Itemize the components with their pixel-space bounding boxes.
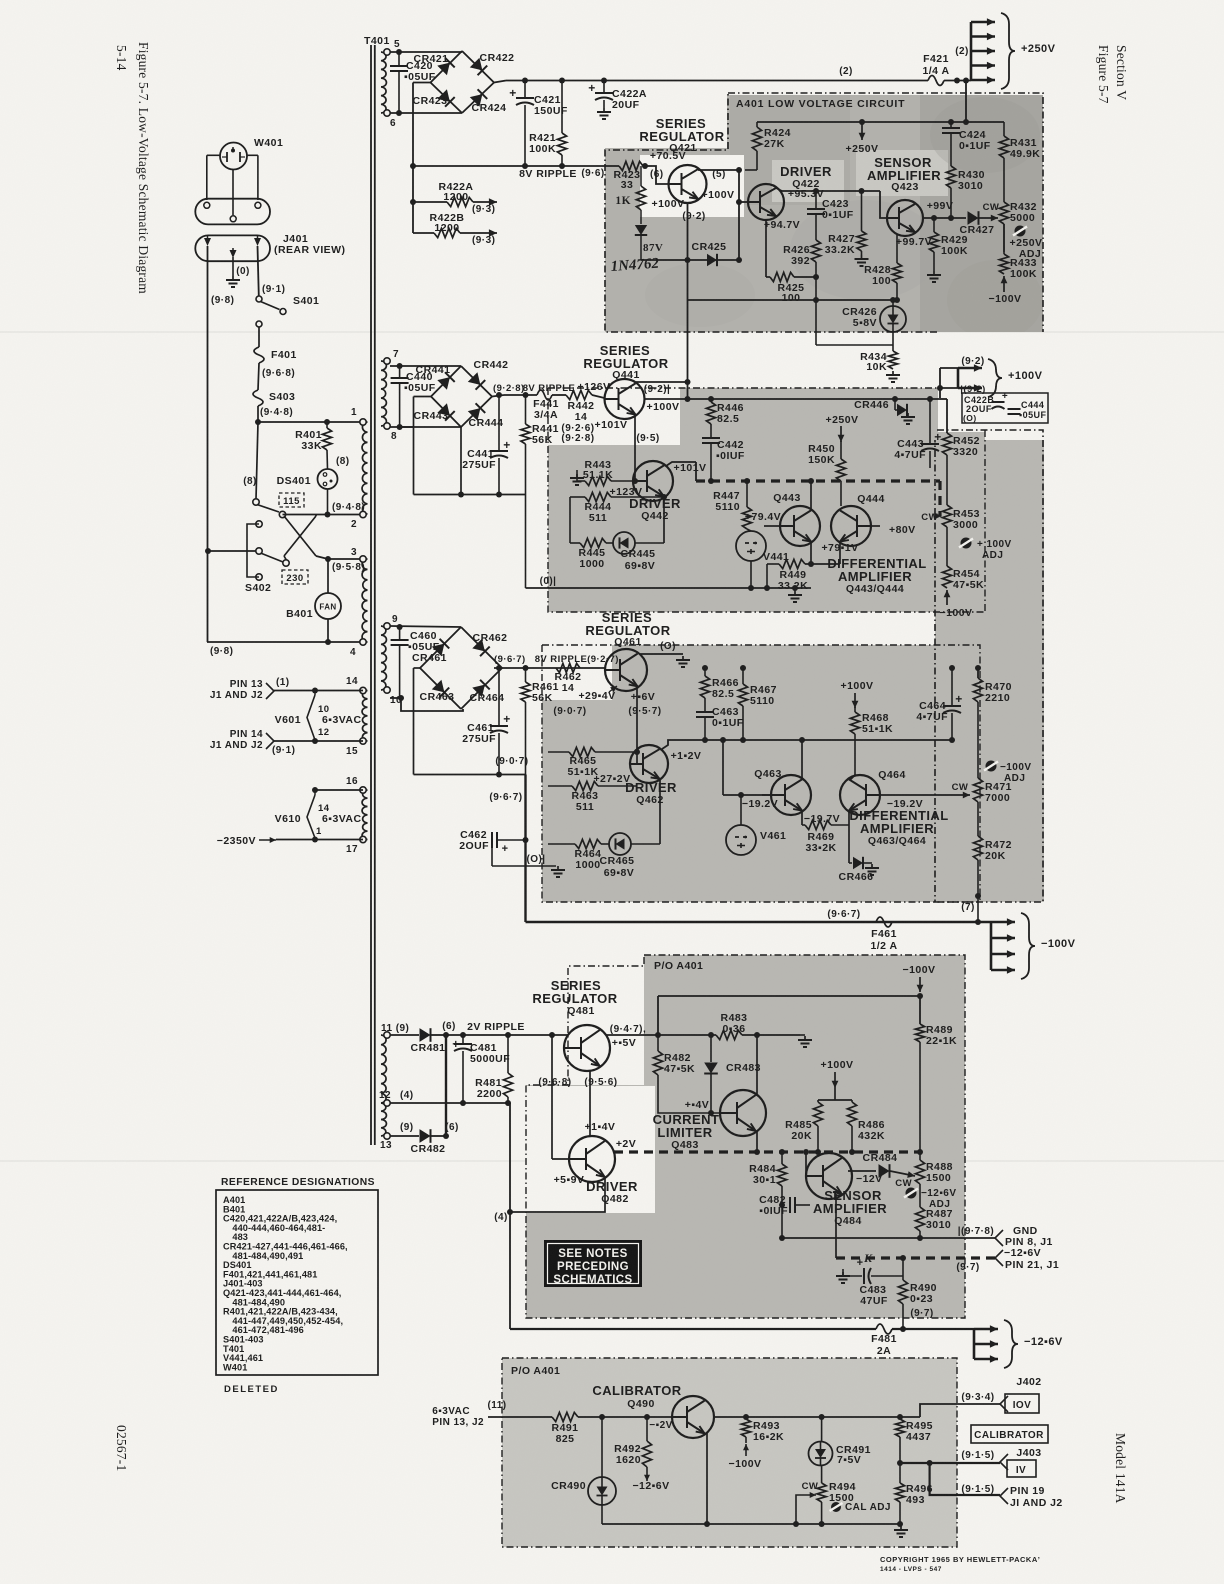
diode CR484 xyxy=(848,1170,876,1172)
resistor R488 1500 potentiometer xyxy=(917,1149,923,1155)
wire to R452 chain xyxy=(940,398,947,400)
+250V output arrows xyxy=(954,78,960,84)
resistor R469 33.2K xyxy=(805,820,831,829)
wire Q462 emitter xyxy=(659,778,661,844)
diode CR443 xyxy=(437,403,454,420)
output J402 10V xyxy=(920,1404,1000,1417)
wire zener row xyxy=(815,300,817,345)
wire S401 to F401 xyxy=(258,327,260,347)
resistor R431 49.9K xyxy=(1003,122,1005,136)
resistor R433 100K xyxy=(1003,224,1005,254)
ground after R483 xyxy=(800,1034,805,1036)
diode CR464 xyxy=(472,680,489,697)
fuse F461 1/2A xyxy=(876,917,892,927)
wire +250V internal bus xyxy=(757,121,1004,123)
resistor R443 51.1K xyxy=(576,474,578,478)
transistor Q441 series regulator xyxy=(605,379,645,419)
wire +101V heavy dashed xyxy=(696,479,940,482)
resistor R444 511 xyxy=(585,492,611,501)
wire -100V feed rail xyxy=(658,995,920,997)
zener CR445 69.8V xyxy=(613,532,635,554)
bottom -12.6V bus xyxy=(510,1328,876,1330)
T401 primary winding 3-4 xyxy=(362,559,367,642)
wire F401 to S403 xyxy=(258,363,259,390)
wire Q481 emitter to Q482 collector xyxy=(589,1071,591,1136)
-100V feed arrow up xyxy=(946,590,948,605)
node at primary tap xyxy=(255,419,261,425)
wiper arrow CW to R488 xyxy=(890,1171,915,1176)
resistor R430 3010 xyxy=(946,166,955,188)
wire Q443 collector xyxy=(810,481,812,511)
wire Q441 collector xyxy=(636,381,688,383)
wires diff amp emitters xyxy=(810,541,812,564)
wire base feed diff amp xyxy=(722,740,724,795)
T401 secondary winding 11-12-13 xyxy=(381,1035,386,1103)
diode CR421 xyxy=(437,58,454,75)
wire bus to Q421 base xyxy=(652,166,669,184)
wire GND pin 8 J1 xyxy=(782,1237,995,1239)
adjustment -100V ADJ xyxy=(986,761,997,772)
receptacle face W401 xyxy=(195,199,270,225)
+100V output wires xyxy=(939,368,941,398)
transistor Q484 sensor amplifier xyxy=(806,1153,852,1199)
resistor R428 100 xyxy=(896,234,898,263)
wires diff amp emitters xyxy=(801,810,803,825)
resistor R466 82.5 xyxy=(704,668,706,676)
wire DS401 to line-set wire xyxy=(327,489,329,514)
adjustment -12.6V ADJ xyxy=(906,1188,917,1199)
fuse F481 2A xyxy=(876,1324,892,1334)
wires plug to face xyxy=(207,154,220,156)
capacitor C441 275UF xyxy=(498,395,500,451)
ground on zero rail xyxy=(794,588,796,591)
switch S402 xyxy=(256,521,262,527)
resistor R434 10K xyxy=(892,345,894,351)
wire zero-volt rail xyxy=(526,587,812,589)
lamp DS401 xyxy=(326,450,329,469)
wire terminal 3 line xyxy=(328,558,364,560)
wire Q442 collector +101V xyxy=(666,462,696,466)
fuse F441 3/4A xyxy=(537,390,552,400)
resistor R493 16.2K xyxy=(743,1414,749,1420)
diode CR427 xyxy=(968,211,979,225)
wire Q421 collector to node 5 xyxy=(698,169,739,171)
transistor Q490 calibrator xyxy=(672,1396,714,1438)
main +126V bus xyxy=(492,395,504,397)
resistor R425 100 xyxy=(766,276,770,278)
wire -12.6V pin 21 heavy dashed xyxy=(836,1256,995,1259)
T401 secondary winding 7-8 xyxy=(381,361,386,426)
white cutout around Q441 xyxy=(548,388,680,445)
resistor R484 30.1 xyxy=(781,1152,783,1164)
V610 heater designation xyxy=(315,789,363,791)
light patch behind SENSOR AMPLIFIER title xyxy=(856,150,948,196)
right margin Section V xyxy=(1114,45,1129,100)
resistor R483 0.36 xyxy=(716,1030,742,1039)
transistor Q422 driver xyxy=(748,184,784,220)
transistor Q461 series regulator xyxy=(605,649,647,691)
handwritten 1K resistor xyxy=(640,166,642,186)
diode CR446 xyxy=(892,396,898,402)
resistor R491 825 xyxy=(552,1412,578,1421)
resistor R447 5110 xyxy=(746,481,748,507)
calibrator boxed label xyxy=(971,1425,1048,1443)
wiper arrow CW xyxy=(940,515,942,517)
Q461 box dashed border xyxy=(542,645,980,902)
resistor R429 100K xyxy=(933,218,935,232)
zener CR426 5.8V xyxy=(892,300,894,306)
T401 secondary winding 5-6 xyxy=(381,52,386,113)
transistor Q483 current limiter xyxy=(720,1090,766,1136)
zener CR465 69.8V xyxy=(609,833,631,855)
diode CR462 xyxy=(472,639,489,656)
adjustment +100V ADJ xyxy=(961,538,972,549)
wire -12.6V heavy dashed sense line xyxy=(614,1150,920,1153)
capacitor C421 150UF xyxy=(522,78,528,84)
capacitor C463 0.1UF xyxy=(696,711,714,713)
capacitor C483 47UF xyxy=(842,1272,844,1276)
resistor R481 2200 xyxy=(505,1032,511,1038)
resistor R489 22.1K xyxy=(919,996,921,1024)
wire Q462 collector xyxy=(662,740,723,749)
wire bridge bottom leg xyxy=(460,427,462,495)
resistor R467 5110 xyxy=(742,668,744,684)
ground at J401 center pin xyxy=(232,257,234,276)
wire Q422 emitter xyxy=(765,220,767,277)
shaded region Q461 -100V section xyxy=(542,645,980,902)
wire feedback row xyxy=(688,299,898,301)
transistor Q443 xyxy=(780,506,820,546)
connector J401 rear view xyxy=(195,235,270,261)
see notes preceding schematics box xyxy=(544,1240,642,1287)
capacitor C440 .05UF xyxy=(390,365,461,367)
transistor Q444 xyxy=(831,506,871,546)
capacitor C464 4.7UF xyxy=(951,668,953,706)
bridge rectifier CR421-CR424 xyxy=(431,51,463,113)
white cutout top-left of A401 box xyxy=(605,95,727,148)
transistor Q442 driver xyxy=(633,461,673,501)
T401 winding 16-17 xyxy=(362,790,367,840)
transistor Q481 series regulator xyxy=(564,1025,610,1071)
transistor Q423 sensor amplifier xyxy=(887,200,923,236)
fuse F421 1/4A xyxy=(928,76,944,86)
diode CR442 xyxy=(468,372,485,389)
bottom rail calibrator xyxy=(602,1523,900,1525)
resistor R464 1000 xyxy=(575,839,601,848)
breaker S403 xyxy=(253,390,263,406)
transistor Q462 driver xyxy=(630,745,668,783)
bridge rectifier CR461-CR464 xyxy=(420,627,461,709)
T401 primary winding 1-2 xyxy=(362,422,367,514)
resistor R462 14 xyxy=(556,663,580,672)
resistor R496 493 xyxy=(897,1460,903,1466)
left margin page number 5-14 xyxy=(114,45,129,71)
diode CR441 xyxy=(437,372,454,389)
resistor R424 27K xyxy=(756,122,758,127)
-100V output arrows xyxy=(990,922,993,970)
voltage selector 115 marker xyxy=(279,493,304,507)
left margin figure caption xyxy=(136,42,151,294)
fan motor B401 xyxy=(327,559,329,593)
wire +100V rail from section1 xyxy=(687,300,689,399)
resistor R445 1000 xyxy=(570,542,580,544)
wires to R485 R486 xyxy=(834,1088,836,1100)
resistor R470 2210 xyxy=(977,668,979,678)
wire dc+ bus to F421 xyxy=(494,81,506,83)
-12.6V output arrows xyxy=(973,1329,976,1359)
resistor R495 4437 xyxy=(897,1414,903,1420)
handwritten zener 87V xyxy=(640,210,642,224)
white cutout around Q482 xyxy=(526,1086,655,1213)
wire Q484 emitter xyxy=(835,1194,837,1258)
white cutout around Q421 xyxy=(640,155,744,217)
Q441 box dashed border xyxy=(548,388,985,612)
wire bridge left leg xyxy=(414,396,432,398)
potentiometer R453 3000 xyxy=(942,505,951,527)
wire Q422 collector rail xyxy=(776,188,790,191)
transistor Q482 driver xyxy=(569,1136,615,1182)
main 8V ripple bus -100V section xyxy=(494,667,606,669)
output J403 1V xyxy=(900,1462,1000,1464)
wire J401 right pin to S401 xyxy=(258,246,259,296)
bottom -100V bus xyxy=(524,775,526,923)
wire (4) rail xyxy=(509,1103,511,1329)
resistor R487 3010 xyxy=(919,1184,921,1207)
wire 2V ripple bus xyxy=(446,1034,568,1036)
resistor R441 56K xyxy=(525,395,527,424)
diode CR466 xyxy=(849,862,852,864)
wire Q464 base to wiper CW xyxy=(880,794,950,796)
fuse F401 xyxy=(254,347,264,363)
transistor Q463 xyxy=(771,775,811,815)
capacitor C443 4.7UF xyxy=(927,396,933,402)
T401 winding 14-15 xyxy=(362,691,367,742)
resistor R490 0.23 xyxy=(902,1258,904,1280)
plug W401 xyxy=(220,143,247,170)
resistor R472 20K xyxy=(977,802,979,836)
-100V feed arrow xyxy=(1003,276,1005,292)
capacitor C422A 20UF xyxy=(601,78,607,84)
wire Q490 collector bus xyxy=(714,1416,920,1418)
resistor R463 511 xyxy=(572,781,598,790)
+250V arrow label xyxy=(861,122,863,140)
wire (9.6.8) base rail xyxy=(551,1035,553,1159)
transistor Q421 series regulator xyxy=(669,165,707,203)
resistor R465 51.1K xyxy=(569,747,595,756)
wire Q482 emitter to (4) rail xyxy=(510,1177,605,1212)
resistor R426 392 xyxy=(811,240,820,262)
diode CR490 xyxy=(599,1414,605,1420)
resistor R468 51.1K xyxy=(854,707,856,712)
resistor R482 47.5K xyxy=(657,1035,659,1051)
wire V441 cathode xyxy=(750,561,752,588)
diode CR483 xyxy=(708,1032,714,1038)
adjustment +250V ADJ xyxy=(1015,226,1026,237)
diode CR425 xyxy=(641,259,688,261)
wire 8V ripple bus xyxy=(413,82,431,84)
wire +100V bus xyxy=(645,398,941,400)
bottom line-set wire xyxy=(207,641,364,643)
shaded region P/O A401 -12.6V section xyxy=(526,955,965,1318)
wire Q461 emitter down to Q462 xyxy=(636,686,638,752)
diode CR422 xyxy=(470,58,487,75)
resistor R485 20K xyxy=(817,1100,819,1102)
resistor R421 100K xyxy=(559,78,565,84)
light patch behind DRIVER title xyxy=(772,160,844,202)
wire bridge left leg xyxy=(414,667,421,669)
capacitor C420 .05UF xyxy=(390,51,462,53)
+100V output arrows xyxy=(957,368,960,388)
output PIN 19 xyxy=(930,1463,1000,1495)
resistor R461 56K xyxy=(525,668,527,682)
wire Q490 emitter xyxy=(706,1433,708,1524)
potentiometer R494 1500 CAL ADJ xyxy=(817,1483,826,1502)
capacitor C444 .05UF xyxy=(1008,408,1021,410)
resistor R449 33.2K xyxy=(779,559,805,568)
capacitor C460 .05UF / CR461 xyxy=(390,626,461,627)
wire Q464 collector up xyxy=(850,775,855,780)
transformer T401 core xyxy=(370,45,372,1145)
A401 box dashed border xyxy=(605,93,1043,902)
-12.6V arrow down xyxy=(646,1467,648,1481)
right margin Figure 5-7 xyxy=(1096,45,1111,104)
capacitor C422B and C444 box xyxy=(962,393,1048,423)
resistor R452 3320 xyxy=(942,433,951,455)
wire Q483 collector xyxy=(756,1035,758,1096)
paper grain overlay xyxy=(0,0,1,1)
V601 heater designation xyxy=(307,695,315,740)
zener CR491 7.5V xyxy=(819,1414,825,1420)
potentiometer R432 5000 xyxy=(999,202,1008,224)
capacitor C442 .01UF xyxy=(702,437,720,439)
wire Q421 emitter down +100V rail xyxy=(687,203,689,300)
voltage selector 230 marker xyxy=(282,570,308,584)
resistor R454 47.5K xyxy=(946,527,948,566)
wire Q442 emitter xyxy=(663,496,665,543)
white cutout around Q461 xyxy=(542,645,612,700)
switch contact S401b xyxy=(253,499,259,505)
capacitor C481 5000UF xyxy=(460,1032,466,1038)
tube V441 xyxy=(736,531,766,561)
capacitor C482 .01UF xyxy=(779,1202,785,1208)
capacitor C461 275UF xyxy=(498,668,500,726)
capacitor C462 20UF xyxy=(491,832,493,848)
wire Q484 base feed xyxy=(805,1152,807,1176)
resistor R486 432K xyxy=(851,1100,853,1102)
wire J401 left pin down xyxy=(207,246,209,642)
wire emitters to CR466 xyxy=(848,825,850,863)
right margin Model 141A xyxy=(1113,1433,1128,1504)
switch S402 arm xyxy=(261,553,284,562)
diode CR424 xyxy=(470,89,487,106)
resistor R427 33.2K xyxy=(861,191,863,231)
shaded region calibrator section xyxy=(502,1358,957,1547)
diode CR423 xyxy=(437,89,454,106)
resistor R423 33 xyxy=(619,161,643,170)
resistor R442 14 xyxy=(566,390,592,399)
bridge rectifier CR441-CR444 xyxy=(431,366,461,427)
resistor R401 33K xyxy=(326,422,328,428)
shaded region Q441 +100V section xyxy=(548,388,985,612)
diode CR463 xyxy=(432,680,449,697)
wire node5 down to Q422 base xyxy=(738,170,740,260)
wire Q463 collector up xyxy=(801,740,803,780)
resistor R446 82.5 xyxy=(710,399,712,402)
transistor Q464 xyxy=(840,775,880,815)
resistor R422B 1200 xyxy=(413,232,434,234)
bottom left drawing number 02567-1 xyxy=(114,1425,129,1471)
wire S403 to node xyxy=(257,406,259,422)
resistor R422A 1200 xyxy=(410,199,416,205)
wiper to R432 xyxy=(979,217,998,219)
wire Q461 collector to ground xyxy=(639,653,683,655)
T401 secondary winding 9-10 xyxy=(381,626,386,690)
wire Q483 emitter xyxy=(756,1131,758,1152)
capacitor C424 0.1UF xyxy=(950,122,952,128)
tube V461 xyxy=(726,825,756,855)
resistor R450 150K xyxy=(840,441,842,459)
potentiometer R471 7000 xyxy=(973,778,982,802)
calibrator box dashed border xyxy=(502,1358,957,1547)
switch S401 xyxy=(256,296,262,302)
wire node down to switch contact xyxy=(256,422,258,499)
diode CR444 xyxy=(468,403,485,420)
zero volt wire to ground xyxy=(491,848,493,866)
diode CR461 element xyxy=(432,639,449,656)
A401 low voltage circuit shaded region xyxy=(605,95,1043,332)
wire node to transformer terminal 1 xyxy=(258,421,360,423)
capacitor C423 0.1UF xyxy=(815,191,817,209)
wire Q441 emitter down xyxy=(634,414,636,481)
white area around C422B box xyxy=(938,388,1048,432)
wire rectifier join xyxy=(445,1035,447,1136)
crossover wires xyxy=(284,516,316,556)
resistor R492 1620 xyxy=(644,1414,650,1420)
wire terminal 2 line xyxy=(283,514,365,516)
wire Q423 collector +99V xyxy=(923,217,966,219)
wire Q481 emitter bus xyxy=(606,1034,716,1036)
P/O A401 box dashed border xyxy=(526,955,965,1318)
